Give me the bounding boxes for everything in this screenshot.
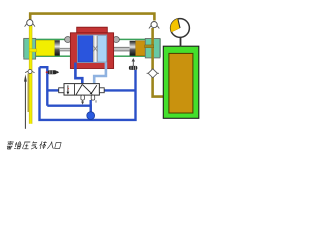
booster piston right (pale blue) — [98, 36, 107, 62]
booster mid band with X mark — [93, 36, 98, 62]
booster cavity (pale blue) — [77, 35, 107, 63]
node: yellow low-pressure gas chamber (left) — [35, 40, 54, 55]
wire: inner line to pilot ball — [47, 106, 90, 112]
check valve CV1 (ball check on yellow inlet line) — [25, 20, 35, 27]
left cell arrow — [67, 85, 69, 92]
piston rod left — [60, 48, 71, 51]
node: goldenrod boosted gas chamber (right) — [135, 41, 145, 56]
booster piston left (royal blue) — [78, 36, 93, 62]
wire: olive pipe through right cap down to tank — [153, 28, 165, 97]
char 需 — [6, 141, 14, 149]
check valve CV4 (small ball check on inlet line below cylinder) — [25, 70, 34, 74]
muffler M2 (right exhaust muffler with up arrow) — [129, 58, 137, 70]
wire: thin olive edge line along yellow inlet pipe — [27, 74, 29, 113]
right cell crossed flow paths — [76, 84, 82, 94]
wire: olive high-pressure top bar from left check valve to right check valve — [30, 14, 154, 25]
cylinder tube (main pneumatic cylinder barrel) — [24, 39, 160, 56]
check valve CV3 (diamond check valve on tank line) — [147, 69, 159, 78]
cylinder end cap left (teal) — [24, 38, 36, 59]
label: 需增压气体入口 (gas inlet caption) — [6, 141, 62, 149]
booster U1: red high-pressure booster body — [70, 27, 113, 68]
valve V1: 3/2 directional control valve — [59, 84, 105, 104]
gauge G1: pressure gauge on tank — [171, 19, 190, 47]
muffler M1 (left exhaust muffler with red dot) — [46, 70, 60, 74]
valve exhaust slots — [81, 95, 85, 100]
piston plate right — [130, 41, 136, 56]
booster body ears (grey mounting lugs) — [65, 37, 71, 43]
node: blue pilot ball — [87, 112, 95, 120]
wire: olive stub into right chamber — [145, 45, 154, 48]
wire: light steel-blue pipe from booster bottom-right to valve top — [94, 63, 106, 85]
wire: dark blue pipe from booster bottom-left to valve top — [75, 63, 82, 85]
piston rod right — [114, 47, 130, 52]
wire: valve right port line — [104, 89, 136, 91]
wire: valve bottom stub to ball — [89, 100, 91, 112]
wire: yellow stub into left chamber — [29, 49, 36, 52]
valve port blocks — [59, 88, 64, 93]
check valve CV2 (ball check on olive output line) — [149, 22, 159, 29]
piston plate left (dark piston disc) — [55, 40, 60, 55]
tank T1: green gas storage tank — [163, 46, 199, 118]
wire: valve left port line — [47, 89, 59, 91]
cylinder end cap right (teal) — [145, 39, 160, 58]
wire: blue pilot loop outer (left vertical, bottom, right vertical) — [40, 67, 136, 120]
wire: yellow inlet pipe (vertical, through left cap down to inlet) — [29, 26, 32, 124]
arrow: inlet flow direction arrow — [24, 74, 27, 129]
